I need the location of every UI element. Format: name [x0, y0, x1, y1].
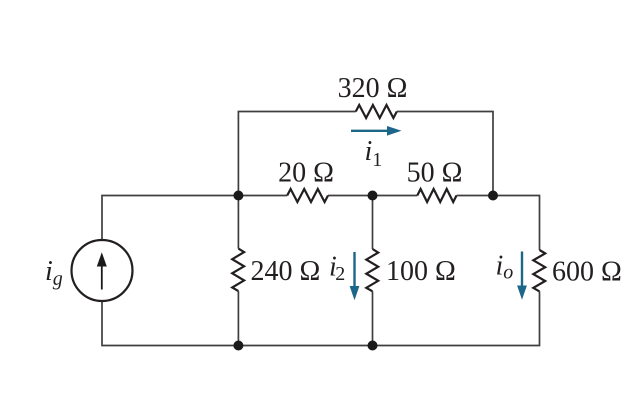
current source ig arrow: [97, 252, 107, 289]
svg-text:50 Ω: 50 Ω: [407, 158, 463, 189]
svg-text:600 Ω: 600 Ω: [552, 257, 622, 288]
node E: junction node2 bottom: [368, 341, 378, 351]
current arrow io (blue): [517, 252, 527, 300]
node C: junction node3 mid: [488, 191, 498, 201]
current source ig circle: [72, 240, 133, 301]
svg-text:320 Ω: 320 Ω: [338, 73, 408, 104]
svg-text:240 Ω: 240 Ω: [251, 256, 321, 287]
wire top loop: node1 up, across 320ohm branch, down to node3: [238, 112, 355, 196]
wire middle between 20ohm and 50ohm: [328, 195, 417, 197]
svg-text:20 Ω: 20 Ω: [278, 158, 334, 189]
wire bottom rail: [102, 291, 540, 345]
resistor 600ohm: [533, 250, 545, 291]
resistor 20ohm: [287, 189, 328, 202]
wire middle rail left: source top to node2: [102, 196, 287, 241]
current arrow i2 (blue): [350, 252, 360, 300]
node A: junction node1 mid: [233, 191, 243, 201]
resistor 320ohm: [356, 105, 397, 118]
node B: junction node2 mid: [368, 191, 378, 201]
wire 240ohm branch stubs: [237, 196, 239, 249]
resistor 240ohm: [232, 249, 244, 292]
resistor 50ohm: [417, 189, 456, 202]
current arrow i1 (blue): [351, 126, 402, 136]
svg-text:100 Ω: 100 Ω: [386, 256, 456, 287]
node D: junction node1 bottom: [233, 341, 243, 351]
wire 100ohm branch stubs: [372, 196, 374, 250]
wire middle right: 50ohm to right corner, down to 600ohm: [457, 196, 540, 251]
resistor 100ohm: [366, 249, 378, 291]
